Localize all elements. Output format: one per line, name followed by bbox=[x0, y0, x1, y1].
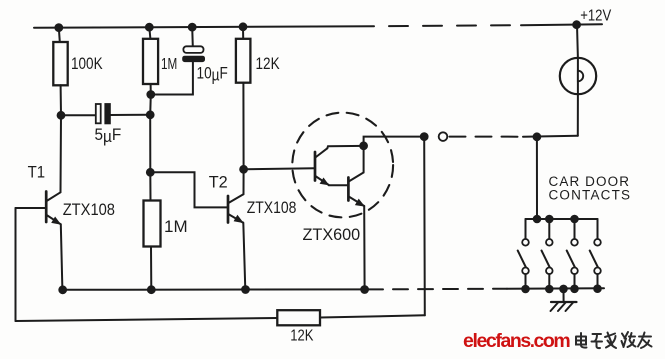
label T1 ZTX108 part bbox=[63, 201, 115, 219]
node junction dot bottom bus ground tap bbox=[560, 286, 567, 293]
node junction dot top bus col2 bbox=[546, 216, 553, 223]
label T1 designator bbox=[28, 163, 45, 181]
svg-text:10µF: 10µF bbox=[197, 65, 228, 85]
node junction dot bottom bus col2 bbox=[546, 286, 553, 293]
wire feedback left vertical bbox=[15, 208, 17, 321]
wire feedback right vertical to output bbox=[423, 137, 426, 316]
svg-text:1M: 1M bbox=[161, 56, 177, 73]
node junction dot T2 emitter on bus bbox=[242, 286, 249, 293]
node junction dot 100K / 5uF bbox=[58, 112, 65, 119]
wire 100K node down to T1 collector bbox=[60, 115, 63, 192]
label ZTX600 part bbox=[303, 226, 361, 244]
svg-text:100K: 100K bbox=[71, 54, 103, 73]
resistor 1M upper bbox=[143, 27, 158, 94]
label 1M lower value bbox=[164, 217, 188, 236]
wire +12V top rail dashed middle section bbox=[374, 25, 521, 26]
svg-text:elecfans.com: elecfans.com bbox=[463, 330, 570, 352]
svg-text:T1: T1 bbox=[28, 163, 45, 181]
transistor Q2 inside darlington bbox=[348, 146, 365, 290]
transistor T2 ZTX108 bbox=[228, 169, 245, 289]
node junction dot top rail at 1M bbox=[146, 24, 153, 31]
svg-text:12K: 12K bbox=[256, 55, 280, 73]
node junction dot darlington emitter on bus bbox=[361, 286, 368, 293]
node junction dot feed on top bus bbox=[534, 216, 541, 223]
ground chassis symbol bbox=[551, 289, 577, 311]
node open terminal circle output bbox=[439, 132, 448, 141]
wire solid to lamp bottom corner bbox=[523, 135, 578, 138]
svg-text:ZTX108: ZTX108 bbox=[247, 199, 297, 217]
node junction dot car door feed bbox=[534, 133, 541, 140]
resistor 100K bbox=[53, 28, 67, 116]
node junction dot 1M lower on bus bbox=[148, 286, 155, 293]
svg-text:5µF: 5µF bbox=[95, 126, 122, 146]
wire T2 base staircase bbox=[150, 172, 227, 207]
svg-text:+12V: +12V bbox=[580, 7, 611, 24]
node junction dot bottom bus col3 bbox=[571, 286, 578, 293]
node junction dot top rail at 10uF bbox=[189, 24, 196, 31]
svg-text:ZTX108: ZTX108 bbox=[63, 201, 115, 219]
capacitor 10uF bbox=[151, 27, 205, 94]
node junction dot top rail at lamp bbox=[573, 21, 580, 28]
wire 1M bottom node down to 5uF node bbox=[149, 95, 152, 115]
label T2 ZTX108 part bbox=[247, 199, 297, 217]
wire contacts top bus bbox=[526, 218, 598, 220]
resistor 12K upper bbox=[236, 27, 251, 170]
node junction dot top rail at 12K bbox=[240, 23, 247, 30]
svg-text:T2: T2 bbox=[209, 173, 228, 191]
wire +12V top rail solid right section bbox=[521, 23, 602, 26]
logo elecfans.com watermark bbox=[463, 330, 570, 352]
transistor Q1 inside darlington bbox=[315, 146, 364, 186]
resistor 1M lower bbox=[144, 172, 161, 289]
node junction dot T2 base takeoff bbox=[147, 169, 154, 176]
wire feedback bottom right section bbox=[320, 315, 425, 317]
label 10uF value bbox=[197, 65, 228, 85]
node junction dot 1M column / 5uF right plate bbox=[147, 111, 154, 118]
node junction dot bottom bus col1 bbox=[522, 286, 529, 293]
label +12V supply bbox=[580, 7, 611, 24]
wire emitter bottom bus dashed middle bbox=[368, 288, 507, 291]
node junction dot T1 emitter on bus bbox=[59, 286, 66, 293]
wire +12V top rail solid left section bbox=[34, 26, 374, 28]
label T2 designator bbox=[209, 173, 228, 191]
logo chinese characters dian zi fa shao you bbox=[576, 332, 652, 348]
svg-text:12K: 12K bbox=[290, 328, 314, 345]
transistor T1 ZTX108 bbox=[16, 192, 63, 290]
wire darlington collector output bbox=[364, 137, 424, 146]
wire feedback bottom left section bbox=[16, 318, 278, 321]
resistor 12K lower feedback bbox=[277, 310, 320, 325]
lamp L1 bbox=[560, 25, 596, 136]
label 5uF value bbox=[95, 126, 122, 146]
label CAR DOOR text bbox=[549, 174, 630, 189]
label 1M upper value bbox=[161, 56, 177, 73]
label 100K value bbox=[71, 54, 103, 73]
node junction dot top rail at 100K bbox=[55, 24, 62, 31]
label 12K lower value bbox=[290, 328, 314, 345]
switch S1 car door contact bbox=[518, 219, 529, 289]
capacitor 5uF bbox=[61, 104, 150, 124]
svg-text:1M: 1M bbox=[164, 217, 188, 236]
darlington ZTX600 dashed circle outline bbox=[292, 113, 393, 218]
svg-text:CONTACTS: CONTACTS bbox=[549, 188, 631, 203]
wire dashed output to lamp node bbox=[450, 136, 524, 138]
node junction dot output / feedback bbox=[421, 133, 428, 140]
wire emitter bottom bus solid left bbox=[63, 288, 368, 290]
node junction dot T2 collector / 12K bbox=[240, 166, 247, 173]
switch S3 car door contact bbox=[567, 219, 578, 289]
node junction dot bottom bus col4 bbox=[594, 285, 601, 292]
switch S4 car door contact bbox=[590, 219, 601, 289]
label CONTACTS text bbox=[549, 188, 631, 203]
wire 5uF node down to T2 base takeoff bbox=[149, 115, 151, 173]
wire T2 collector to darlington base bbox=[244, 168, 315, 169]
label 12K upper value bbox=[256, 55, 280, 73]
wire contacts bottom bus solid right bbox=[507, 287, 604, 289]
node junction dot darlington collector bbox=[360, 142, 367, 149]
wire car door contacts feed vertical bbox=[536, 137, 538, 219]
node junction dot top bus col3 bbox=[571, 216, 578, 223]
svg-text:ZTX600: ZTX600 bbox=[303, 226, 361, 244]
switch S2 car door contact bbox=[542, 219, 553, 289]
node junction dot 1M / 10uF bbox=[147, 91, 154, 98]
